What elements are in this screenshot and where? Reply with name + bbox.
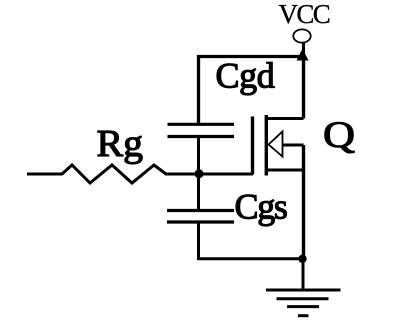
transistor Q body arrow [269, 132, 283, 157]
wire drain vertical [302, 57, 305, 119]
svg-text:VCC: VCC [279, 0, 330, 29]
capacitor Cgs top plate [167, 209, 234, 212]
node arrow at VCC junction [297, 49, 309, 61]
transistor Q gate bar [251, 117, 254, 175]
resistor Rg [27, 165, 166, 183]
wire top rail with left drop to Cgd [199, 57, 304, 124]
transistor Q middle stub [283, 144, 304, 147]
wire gate [165, 173, 253, 176]
capacitor Cgd top plate [168, 123, 235, 126]
node gate junction dot [195, 169, 204, 178]
wire ground stub [302, 259, 305, 291]
transistor Q drain stub [266, 117, 304, 120]
svg-text:Cgd: Cgd [216, 56, 275, 96]
svg-text:Q: Q [323, 115, 355, 156]
wire source vertical [302, 145, 305, 260]
transistor Q source stub [266, 169, 304, 172]
svg-text:Rg: Rg [97, 123, 144, 165]
transistor Q channel bar [265, 115, 268, 176]
capacitor Cgd bottom plate [168, 135, 235, 138]
svg-text:Cgs: Cgs [235, 187, 287, 227]
wire bottom horizontal [197, 257, 304, 260]
wire gate node to Cgs [197, 174, 200, 210]
VCC terminal circle [293, 29, 310, 42]
capacitor Cgs bottom plate [167, 220, 234, 223]
wire Cgs bottom stub [197, 224, 200, 261]
wire Cgd bottom stub to gate node [197, 138, 200, 175]
ground [266, 290, 341, 316]
wire VCC stub [302, 43, 305, 59]
node source-ground junction dot [298, 255, 306, 263]
